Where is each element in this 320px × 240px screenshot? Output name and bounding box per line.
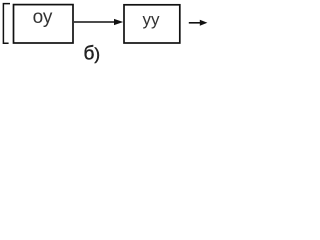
svg-text:оу: оу [33, 7, 53, 28]
block УУ box [124, 5, 180, 43]
output wire [189, 22, 202, 24]
arrowhead into УУ [114, 19, 123, 25]
output arrowhead [200, 20, 208, 26]
svg-text:уу: уу [143, 10, 161, 29]
bracket fragment at left [3, 4, 10, 44]
wire ОУ to УУ [74, 21, 116, 23]
block ОУ box [14, 5, 74, 43]
svg-text:б): б) [84, 43, 101, 64]
